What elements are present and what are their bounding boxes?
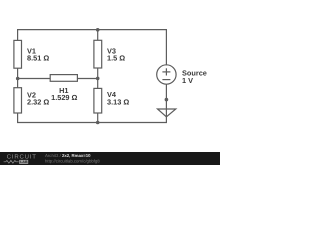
wire V4 bottom stub bbox=[97, 113, 99, 123]
node top junction bbox=[96, 28, 100, 32]
ground bbox=[158, 109, 176, 117]
svg-text:LAB: LAB bbox=[20, 160, 28, 164]
wire V3 to V4 bbox=[97, 68, 99, 88]
svg-text:2.32 Ω: 2.32 Ω bbox=[27, 97, 49, 106]
node bottom junction bbox=[96, 121, 100, 125]
resistor V4 bbox=[94, 88, 102, 113]
node ground junction bbox=[165, 98, 169, 102]
svg-text:1.5 Ω: 1.5 Ω bbox=[107, 54, 125, 63]
source plus sign bbox=[162, 71, 170, 73]
resistor V2 bbox=[14, 88, 22, 113]
resistor H1 bbox=[50, 75, 77, 82]
resistor V1 bbox=[14, 40, 22, 68]
svg-text:3.13 Ω: 3.13 Ω bbox=[107, 97, 129, 106]
logo LAB box bbox=[19, 160, 28, 164]
svg-text:1 V: 1 V bbox=[182, 76, 193, 85]
source minus sign bbox=[162, 79, 170, 81]
footer banner bbox=[0, 152, 220, 165]
wire bottom rail bbox=[18, 113, 167, 123]
svg-text:1.529 Ω: 1.529 Ω bbox=[51, 93, 77, 102]
node mid-right junction bbox=[96, 77, 100, 81]
resistor V3 bbox=[94, 40, 102, 68]
wire H1 right bbox=[77, 78, 97, 80]
svg-text:http://circuitlab.com/c/gbbfg8: http://circuitlab.com/c/gbbfg8 bbox=[45, 158, 100, 163]
node mid-left junction bbox=[16, 77, 20, 81]
wire H1 left bbox=[18, 78, 51, 80]
svg-text:8.51 Ω: 8.51 Ω bbox=[27, 54, 49, 63]
wire top rail bbox=[18, 30, 167, 66]
logo resistor squiggle bbox=[4, 160, 19, 163]
wire V3 top stub bbox=[97, 30, 99, 41]
wire V1 to V2 bbox=[17, 68, 19, 88]
voltage source V circle bbox=[157, 65, 176, 84]
wire source to ground bbox=[165, 84, 167, 117]
